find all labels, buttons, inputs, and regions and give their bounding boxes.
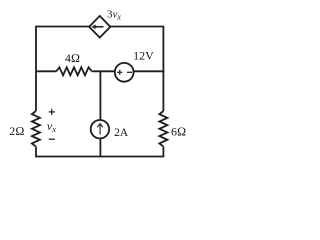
svg-text:12V: 12V — [133, 49, 154, 63]
plus sign inside 12V source — [117, 70, 122, 75]
minus sign of vx polarity — [49, 138, 55, 140]
current source 2A (circle) — [91, 120, 109, 138]
dependent current source 3vx (diamond) — [89, 16, 110, 38]
svg-text:3vx: 3vx — [107, 8, 121, 21]
wire: 2A branch lower — [99, 139, 101, 157]
wire: middle row right of 12V source — [134, 70, 164, 72]
wire: middle row between 4ohm and 12V source (junction with 2A branch) — [92, 70, 115, 72]
wire: top-right segment from diamond to right rail — [110, 27, 163, 112]
wire: 2A branch upper — [99, 70, 101, 119]
wire: middle row left stub — [36, 70, 56, 72]
svg-text:2Ω: 2Ω — [9, 124, 24, 138]
wire: top-left segment from node A to diamond — [36, 27, 90, 112]
wire: bottom rail with left and right stubs — [36, 147, 163, 157]
svg-text:6Ω: 6Ω — [171, 125, 186, 139]
minus sign inside 12V source — [127, 71, 132, 73]
voltage source 12V (circle) — [115, 63, 134, 82]
svg-text:2A: 2A — [114, 127, 129, 139]
arrow inside 2A source pointing up — [97, 124, 103, 135]
resistor 6ohm (right vertical zigzag) — [159, 111, 167, 147]
resistor 2ohm (left vertical zigzag) — [32, 111, 40, 147]
plus sign of vx polarity — [49, 109, 55, 115]
resistor 4ohm (horizontal zigzag) — [56, 67, 92, 75]
svg-text:4Ω: 4Ω — [65, 51, 80, 65]
svg-text:vx: vx — [47, 119, 56, 134]
arrow inside diamond pointing left — [92, 24, 104, 29]
